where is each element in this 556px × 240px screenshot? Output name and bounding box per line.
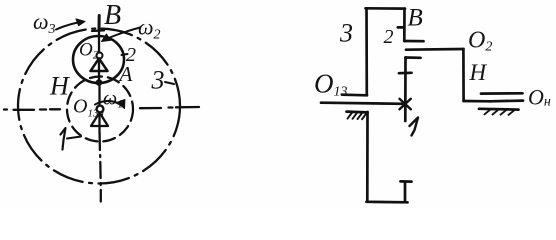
svg-text:3: 3 [339, 19, 353, 48]
svg-text:O2: O2 [468, 28, 492, 55]
velocity arrow inside gear 2 (shaft + hollow head) [98, 31, 100, 53]
carrier H link: right vertical [462, 49, 465, 101]
ring gear 3 lower tooth cap [401, 180, 412, 183]
ring gear 3 lower tooth stem [404, 182, 407, 202]
ring gear 3 frame: left vertical (upper) [365, 8, 368, 95]
svg-text:H: H [49, 72, 70, 101]
svg-text:ω3: ω3 [33, 9, 56, 37]
svg-text:H: H [469, 60, 488, 85]
point A dot [96, 79, 103, 86]
ring tooth at B: vertical [403, 9, 406, 41]
leader and label 1 [67, 137, 81, 139]
velocity arrow inside gear 1 (shaft + hollow head) [98, 83, 100, 106]
ring gear 3 pitch circle (dash-dot) [18, 29, 180, 184]
input shaft O13 [321, 103, 404, 104]
svg-text:Oн: Oн [528, 85, 551, 110]
ring gear 3 frame: left vertical (lower) [366, 112, 369, 202]
vertical center line (dash-dot, lower part) [100, 134, 101, 202]
omega1 curved arrow [95, 101, 123, 107]
leader and label 3 [165, 82, 174, 84]
omega3 curved arrow [56, 22, 83, 30]
left ground hatches [348, 112, 368, 119]
sun gear 1 pitch circle (dashed) [67, 77, 133, 142]
svg-text:O2: O2 [79, 40, 99, 62]
center marker circle O(1,3,H) [97, 106, 104, 113]
left ground baseline [347, 110, 368, 114]
svg-text:3: 3 [151, 66, 165, 95]
gear 1 tooth tick [399, 71, 412, 74]
right ground baseline [479, 107, 519, 110]
carrier bearing lower line [490, 99, 523, 102]
point B tick on ring circle [92, 29, 104, 32]
ring gear 3 frame: top bar [366, 7, 406, 10]
input shaft upper line [342, 93, 367, 96]
svg-text:B: B [104, 0, 121, 31]
gear 2 shaft top tick [406, 56, 421, 59]
ring tooth at B: left tick [398, 26, 405, 29]
ring gear 3 frame: bottom bar [367, 200, 408, 203]
svg-text:2: 2 [384, 26, 394, 48]
svg-text:O13: O13 [314, 69, 348, 100]
right ground hatches [485, 109, 516, 115]
svg-text:B: B [408, 5, 423, 32]
gear 2 / gear 1 shaft vertical [404, 58, 407, 122]
label 1 [410, 118, 419, 136]
carrier bearing upper line [481, 92, 523, 95]
carrier H link: top horizontal to O2 [406, 48, 464, 51]
vertical center line (upper solid segment through B) [98, 16, 101, 31]
svg-text:ω2: ω2 [138, 15, 161, 43]
omega2 curved arrow [103, 28, 140, 41]
svg-text:A: A [118, 62, 133, 86]
svg-text:ω1: ω1 [103, 88, 123, 111]
planet gear 2 pitch circle [73, 36, 124, 83]
X cross at shaft junction [400, 99, 411, 110]
gear 2 upper tooth flange [404, 40, 423, 43]
gear 2 center small circle O2 [97, 53, 103, 59]
carrier H link: bottom to bearing [464, 100, 490, 103]
leader and label 2 [122, 54, 128, 55]
horizontal center line (dash-dot) [4, 107, 199, 110]
